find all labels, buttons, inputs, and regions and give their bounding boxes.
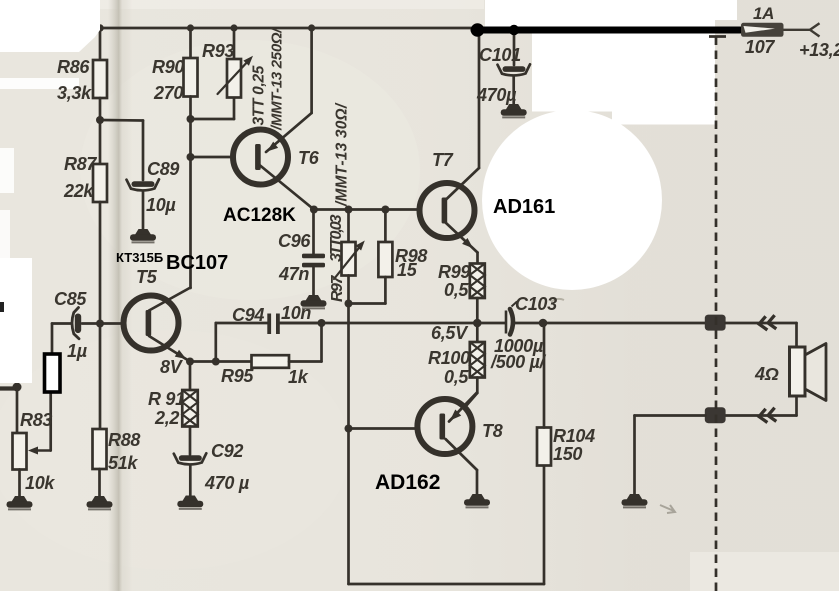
wire to T6 base node bbox=[189, 119, 192, 157]
R83 wiper arrow bbox=[38, 449, 51, 451]
white-out left middle bbox=[0, 258, 32, 383]
wire T8 base bbox=[349, 427, 419, 430]
wire T8 collector down bbox=[476, 470, 479, 494]
page fold crease bbox=[108, 0, 132, 591]
wire C94 left bbox=[216, 322, 268, 325]
wire C101 bottom bbox=[512, 77, 515, 105]
wire T6 emitter lead bbox=[266, 113, 312, 152]
svg-text:AD162: AD162 bbox=[375, 471, 440, 494]
R97 trimmer arrow bbox=[334, 244, 362, 279]
wire C96 top bbox=[312, 210, 315, 255]
T8 emitter arrow (PNP) bbox=[450, 410, 461, 421]
potentiometer R83 bbox=[13, 433, 27, 470]
node input junction bbox=[13, 383, 22, 392]
wire T8 collector lead bbox=[446, 439, 478, 470]
wire input riser upper bbox=[51, 324, 54, 356]
svg-text:15: 15 bbox=[397, 260, 418, 280]
wire output line right part bbox=[514, 322, 706, 325]
svg-text:3ТТ 0,25: 3ТТ 0,25 bbox=[251, 65, 268, 125]
resistor R98 bbox=[378, 242, 392, 277]
white-out top-left bbox=[0, 0, 100, 52]
svg-text:R87: R87 bbox=[64, 154, 97, 174]
node R86/R87 junction bbox=[96, 116, 104, 124]
capacitor C101 bbox=[498, 64, 531, 75]
wire R87 top bbox=[99, 120, 102, 164]
capacitor C103 bbox=[506, 302, 517, 335]
wire T5 base bbox=[82, 322, 125, 325]
node C103/R104 junction bbox=[539, 319, 548, 328]
ground T8 bbox=[464, 494, 490, 507]
annotation thick supply wire bbox=[474, 27, 745, 34]
svg-text:47n: 47n bbox=[278, 264, 309, 284]
wire output line left part bbox=[280, 322, 505, 325]
svg-text:R 91: R 91 bbox=[148, 389, 185, 409]
resistor R100 (hatched) bbox=[470, 342, 485, 378]
wire T7 collector lead bbox=[446, 168, 479, 200]
T5 emitter arrow (NPN) bbox=[175, 350, 186, 359]
wire T8 emitter lead bbox=[449, 393, 477, 422]
svg-text:/ММТ-13 30Ω/: /ММТ-13 30Ω/ bbox=[334, 102, 351, 207]
svg-text:R104: R104 bbox=[553, 426, 595, 446]
white-out circle bbox=[482, 110, 662, 290]
resistor R90 bbox=[184, 58, 198, 97]
R93 trimmer arrow bbox=[218, 59, 251, 94]
wire down to R88 bbox=[99, 324, 102, 431]
wire C94 right bbox=[280, 322, 322, 325]
capacitor C96 bbox=[302, 254, 325, 268]
wire speaker bottom lead bbox=[795, 396, 798, 416]
wire R86 bottom bbox=[99, 98, 102, 120]
svg-text:R97: R97 bbox=[329, 275, 346, 302]
node rail/T6 emitter bbox=[308, 24, 315, 31]
capacitor C94 bbox=[267, 314, 280, 335]
node C94 riser junction bbox=[212, 358, 220, 366]
node T8 base junction bbox=[345, 425, 353, 433]
wire R98 bottom bbox=[384, 277, 387, 304]
svg-text:R88: R88 bbox=[108, 430, 140, 450]
wire R87 to base node bbox=[99, 202, 102, 324]
wire emitter to R95 bbox=[190, 360, 252, 363]
resistor R86 bbox=[93, 60, 107, 98]
svg-text:107: 107 bbox=[745, 37, 775, 57]
wire to speaker top bbox=[726, 322, 797, 325]
wire speaker bottom bbox=[726, 414, 797, 417]
wire R97 top bbox=[347, 210, 350, 243]
svg-text:1µ: 1µ bbox=[67, 341, 88, 361]
svg-text:0,5: 0,5 bbox=[444, 367, 469, 387]
transistor T7 (AD161) bbox=[420, 183, 475, 238]
connector plug top (black square) bbox=[705, 315, 726, 331]
svg-text:R100: R100 bbox=[428, 348, 470, 368]
connector chevrons bottom bbox=[758, 408, 776, 424]
ground C96 bbox=[301, 295, 327, 308]
svg-text:AC128K: AC128K bbox=[223, 205, 296, 226]
node rail/C101 (annotation dot) bbox=[509, 25, 519, 35]
svg-text:C85: C85 bbox=[54, 289, 87, 309]
wire T5 emitter lead bbox=[149, 336, 190, 362]
node rail/R90 bbox=[187, 24, 194, 31]
wire bottom run bbox=[349, 583, 545, 586]
resistor R104 bbox=[537, 428, 551, 466]
node rail left corner bbox=[96, 24, 104, 32]
svg-text:T5: T5 bbox=[136, 267, 158, 287]
capacitor C85 bbox=[72, 308, 81, 339]
ground R83 bbox=[7, 496, 33, 509]
node R98 junction bbox=[381, 206, 389, 214]
wire R104 bottom riser bbox=[543, 466, 546, 585]
svg-text:+13,2: +13,2 bbox=[799, 40, 839, 60]
wire T5 collector riser bbox=[189, 157, 192, 288]
svg-text:T7: T7 bbox=[432, 150, 454, 170]
transistor T6 bbox=[233, 130, 288, 185]
T6 emitter arrow (PNP) bbox=[267, 142, 278, 152]
wire R99 bottom bbox=[476, 298, 479, 323]
svg-text:10k: 10k bbox=[25, 473, 55, 493]
wire C89 bottom bbox=[142, 192, 145, 230]
ground C92 bbox=[177, 496, 203, 509]
wire return riser bbox=[633, 416, 636, 495]
wire T6 collector lead bbox=[260, 165, 314, 210]
svg-text:R93: R93 bbox=[202, 41, 234, 61]
resistor R91 (hatched) bbox=[182, 390, 198, 427]
svg-text:C101: C101 bbox=[479, 45, 521, 65]
wire R95 riser bbox=[320, 323, 323, 362]
svg-text:10µ: 10µ bbox=[146, 195, 176, 215]
svg-text:R83: R83 bbox=[20, 410, 52, 430]
svg-text:1k: 1k bbox=[288, 367, 309, 387]
svg-text:R86: R86 bbox=[57, 57, 90, 77]
svg-text:470 µ: 470 µ bbox=[204, 473, 250, 493]
svg-text:C96: C96 bbox=[278, 231, 311, 251]
white-out top right band bbox=[485, 0, 712, 27]
ground R88 bbox=[87, 496, 113, 509]
resistor R88 bbox=[93, 429, 107, 469]
wire R97/R98 bottom join bbox=[349, 302, 386, 305]
node T5 base junction bbox=[96, 320, 104, 328]
svg-text:/ММТ-13 250Ω/: /ММТ-13 250Ω/ bbox=[269, 27, 286, 131]
wire: top supply rail bbox=[100, 27, 478, 30]
resistor R99 (hatched) bbox=[470, 264, 485, 299]
wire R91 to C92 bbox=[189, 427, 192, 455]
wire bias column to bottom bbox=[347, 304, 350, 585]
pencil mark near C103 bbox=[551, 299, 564, 302]
node T5 emitter junction bbox=[186, 358, 194, 366]
wire R100 to T8 bbox=[465, 393, 478, 407]
node T6 base junction bbox=[187, 153, 195, 161]
wire R91 top bbox=[189, 362, 192, 392]
wire R100 bottom bbox=[476, 378, 479, 394]
wire T7 emitter to R99 bbox=[476, 253, 479, 265]
resistor R93 (trimmer) bbox=[227, 59, 241, 98]
transistor T5 (BC107) bbox=[124, 296, 179, 351]
wire R93 bottom riser bbox=[233, 97, 236, 119]
ground C89 bbox=[130, 229, 156, 242]
wire C94 riser bbox=[214, 323, 217, 362]
node C96 junction bbox=[310, 206, 318, 214]
resistor R95 bbox=[252, 355, 290, 368]
ground C101 bbox=[501, 104, 527, 117]
svg-text:R90: R90 bbox=[152, 57, 184, 77]
wire R100 top bbox=[476, 323, 479, 343]
pencil mark bottom right bbox=[660, 505, 675, 513]
node R97 junction bbox=[345, 206, 353, 214]
svg-text:R99: R99 bbox=[438, 262, 470, 282]
wire R95 right bbox=[289, 360, 322, 363]
wire C85 left bbox=[52, 322, 71, 325]
wire R83 bottom bbox=[18, 470, 21, 497]
svg-text:T8: T8 bbox=[482, 421, 503, 441]
wire R98 top bbox=[384, 210, 387, 243]
wire T7 collector riser bbox=[478, 30, 481, 168]
node annotation big dot bbox=[471, 23, 485, 37]
wire R93 top bbox=[233, 28, 236, 60]
paper light patch bottom right bbox=[690, 552, 839, 591]
svg-text:10n: 10n bbox=[281, 303, 311, 323]
node output/R99 bbox=[473, 319, 482, 328]
wire T6 emitter riser bbox=[310, 28, 313, 113]
dashed chassis boundary bbox=[709, 35, 726, 38]
speaker 4 ohm bbox=[790, 344, 827, 401]
node R97/R98 bottom junction bbox=[345, 300, 353, 308]
connector chevrons top bbox=[758, 315, 776, 331]
svg-text:3ТТ0,03: 3ТТ0,03 bbox=[328, 214, 345, 262]
wire R90 bottom bbox=[189, 97, 192, 120]
svg-text:270: 270 bbox=[153, 83, 183, 103]
wire wiper riser bbox=[49, 392, 52, 451]
wire speaker top lead bbox=[795, 323, 798, 348]
capacitor C92 bbox=[174, 453, 207, 464]
svg-text:AD161: AD161 bbox=[493, 196, 555, 218]
connector plug bottom (black square) bbox=[705, 407, 726, 423]
wire T7 emitter lead bbox=[446, 223, 478, 253]
wire C92 bottom bbox=[189, 466, 192, 496]
wire to R83 bbox=[16, 387, 19, 434]
T7 emitter arrow (NPN) bbox=[462, 238, 473, 248]
wire to R93 bbox=[191, 118, 235, 121]
resistor R97 (trimmer) bbox=[342, 242, 356, 276]
svg-text:КТ315Б: КТ315Б bbox=[116, 250, 163, 265]
wire R90 top bbox=[189, 28, 192, 59]
svg-text:6,5V: 6,5V bbox=[431, 323, 469, 343]
wire T6 collector to T7 base bbox=[314, 208, 419, 211]
wire input stub bbox=[0, 386, 17, 390]
edge mark left bbox=[0, 302, 4, 312]
node C94/R95 join bbox=[318, 319, 326, 327]
svg-text:BC107: BC107 bbox=[166, 252, 228, 274]
resistor R87 bbox=[93, 164, 107, 202]
svg-text:C94: C94 bbox=[232, 305, 264, 325]
wire C101 top bbox=[513, 30, 516, 65]
svg-text:3,3k: 3,3k bbox=[57, 83, 92, 103]
wire R104 top riser bbox=[543, 323, 546, 428]
wire R97 bottom bbox=[347, 276, 350, 304]
svg-text:/500 µ/: /500 µ/ bbox=[490, 352, 547, 372]
wire R88 bottom bbox=[98, 469, 101, 496]
svg-text:C103: C103 bbox=[515, 294, 557, 314]
capacitor C89 bbox=[127, 179, 160, 190]
svg-text:150: 150 bbox=[553, 444, 582, 464]
transistor T8 (AD162) bbox=[417, 399, 472, 454]
wire T6 base bbox=[191, 156, 235, 159]
annotation white box on input wire bbox=[45, 354, 61, 392]
wire R86 top bbox=[99, 28, 102, 61]
svg-text:51k: 51k bbox=[108, 453, 138, 473]
node rail/R93 bbox=[230, 24, 237, 31]
svg-text:8V: 8V bbox=[160, 357, 184, 377]
svg-text:1A: 1A bbox=[753, 4, 774, 23]
ground speaker return bbox=[622, 494, 648, 507]
svg-text:22k: 22k bbox=[63, 181, 94, 201]
svg-text:2,2: 2,2 bbox=[154, 408, 179, 428]
svg-text:C89: C89 bbox=[147, 159, 179, 179]
wire C96 bottom bbox=[312, 267, 315, 295]
fuse F 1A bbox=[741, 23, 820, 37]
wire T5 collector lead bbox=[149, 288, 191, 311]
svg-text:470µ: 470µ bbox=[476, 85, 517, 105]
svg-text:R95: R95 bbox=[221, 366, 254, 386]
node R90/R93 junction bbox=[187, 115, 195, 123]
wire return to ground bbox=[635, 414, 706, 417]
svg-text:0,5: 0,5 bbox=[444, 280, 469, 300]
svg-text:4Ω: 4Ω bbox=[754, 364, 779, 384]
wire to C89 bbox=[100, 119, 143, 122]
svg-text:C92: C92 bbox=[211, 441, 243, 461]
svg-text:T6: T6 bbox=[298, 148, 320, 168]
wire C89 top bbox=[142, 121, 145, 181]
